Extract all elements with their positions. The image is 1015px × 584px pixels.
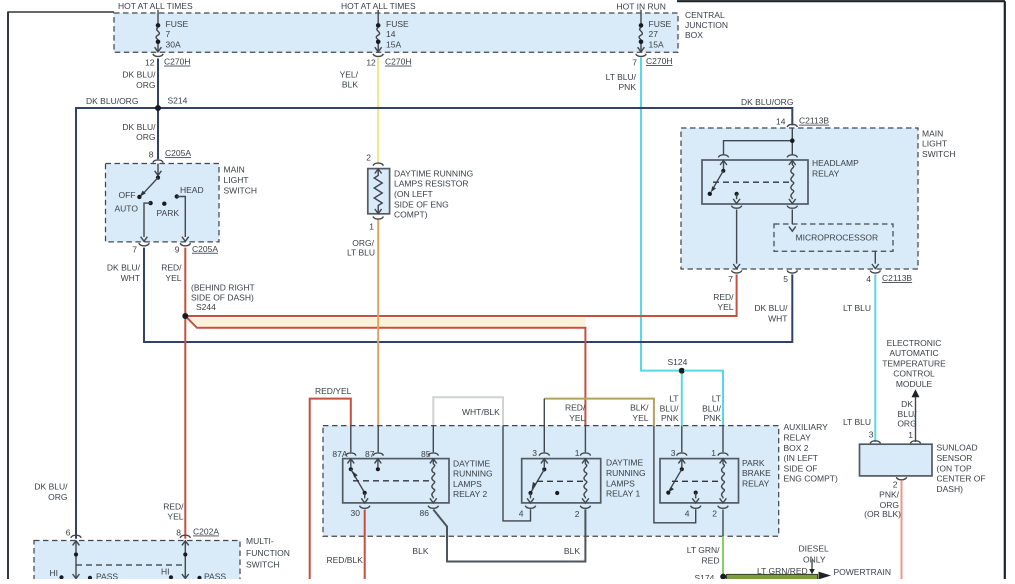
headlamp relay contact to output (733, 192, 740, 204)
svg-text:DK: DK (901, 399, 913, 409)
svg-text:MODULE: MODULE (896, 379, 933, 389)
relay2 mechanical dashed link (353, 480, 431, 482)
wire headlamp relay coil to microprocessor (791, 210, 793, 225)
svg-text:DK BLU/: DK BLU/ (107, 263, 141, 273)
MFS pin6 internals (73, 541, 80, 579)
page border top-left segment (8, 11, 114, 13)
svg-text:14: 14 (776, 117, 786, 127)
svg-text:HEADLAMP: HEADLAMP (812, 158, 859, 168)
svg-text:LAMPS: LAMPS (606, 478, 635, 488)
svg-text:RED: RED (702, 556, 720, 566)
auxiliary relay box 2 (323, 422, 838, 536)
node S244 (182, 313, 188, 319)
label YEL/BLK (340, 69, 359, 89)
connector C270H pin 7 (fuse 27) (632, 54, 672, 68)
svg-text:MULTI-: MULTI- (246, 536, 274, 546)
relay1 pin3 entry arrow and contact (541, 459, 548, 472)
svg-text:2: 2 (712, 509, 717, 519)
svg-text:BLK: BLK (412, 546, 428, 556)
svg-text:TEMPERATURE: TEMPERATURE (882, 358, 946, 368)
contact AUTO to pin 7 (141, 201, 153, 241)
svg-text:RUNNING: RUNNING (606, 468, 646, 478)
svg-text:6: 6 (66, 528, 71, 538)
svg-text:PARK: PARK (742, 458, 765, 468)
svg-text:DAYTIME: DAYTIME (453, 458, 490, 468)
svg-text:8: 8 (149, 150, 154, 160)
svg-text:JUNCTION: JUNCTION (685, 20, 728, 30)
svg-text:PNK: PNK (619, 82, 637, 92)
svg-text:DASH): DASH) (937, 484, 964, 494)
wire RED/YEL from bottom up to relay2 pin 87A (310, 399, 351, 579)
svg-text:AUTO: AUTO (115, 204, 139, 214)
svg-text:LT BLU: LT BLU (347, 247, 375, 257)
svg-text:15A: 15A (649, 39, 664, 49)
connector C202A pins 6 and 8 (66, 527, 220, 538)
svg-text:30A: 30A (166, 39, 181, 49)
label LT BLU/PNK (left drop) (660, 394, 680, 423)
svg-text:S174: S174 (695, 573, 715, 579)
fuse 14 15A (375, 10, 409, 52)
fuse 7 30A (155, 10, 189, 52)
wire relay1 pin1 inside aux box (584, 426, 586, 453)
svg-text:S244: S244 (196, 302, 216, 312)
contact PARK (floating) (162, 202, 166, 206)
wire headlamp relay output to MLS pin 7 (733, 210, 740, 269)
wire relay1 pin4 to WHT/BLK elbow (503, 426, 531, 521)
headlamp relay box (702, 158, 859, 204)
wire LT GRN/RED to S174 (722, 536, 724, 579)
svg-text:LT BLU: LT BLU (843, 303, 871, 313)
label DK BLU/ORG (above S214) (122, 70, 156, 90)
svg-text:PARK: PARK (157, 208, 180, 218)
svg-text:S214: S214 (168, 95, 188, 105)
wire park brake relay pin3 inside aux box (681, 426, 683, 453)
svg-text:AUTOMATIC: AUTOMATIC (889, 348, 938, 358)
switch arm to OFF (137, 178, 158, 199)
svg-text:S124: S124 (668, 357, 688, 367)
svg-text:DK BLU/ORG: DK BLU/ORG (86, 96, 138, 106)
microprocessor box (774, 224, 893, 251)
daytime running lamps resistor box (368, 168, 473, 219)
relay2 connector arcs pins 87A 87 85 (332, 449, 438, 459)
svg-text:BLU/: BLU/ (702, 403, 722, 413)
sunload connector pin 2 (893, 477, 907, 489)
svg-text:MICROPROCESSOR: MICROPROCESSOR (796, 233, 879, 243)
relay1 mechanical dashed link (537, 480, 583, 482)
svg-text:2: 2 (366, 153, 371, 163)
wire LT GRN/RED thick to powertrain (727, 574, 818, 579)
svg-text:RED/YEL: RED/YEL (315, 386, 352, 396)
svg-text:C205A: C205A (165, 148, 191, 158)
wire RED/BLK relay2 pin30 down (364, 510, 366, 580)
connector C2113B pins 7 5 4 (728, 270, 912, 284)
svg-text:CONTROL: CONTROL (893, 369, 935, 379)
relay1 coil (582, 459, 589, 503)
svg-text:SWITCH: SWITCH (246, 560, 280, 570)
svg-text:ORG: ORG (136, 132, 155, 142)
svg-text:C205A: C205A (192, 244, 218, 254)
wire BLK/YEL drop to park brake relay pin4 (654, 426, 696, 523)
svg-text:RED/: RED/ (713, 292, 734, 302)
svg-text:FUSE: FUSE (386, 19, 409, 29)
svg-text:DK BLU/: DK BLU/ (754, 303, 788, 313)
svg-text:1: 1 (575, 448, 580, 458)
svg-text:8: 8 (176, 528, 181, 538)
wire LT BLU/PNK fuse27 down to S124 turn (641, 57, 680, 370)
relay1 connector arcs pins 4 2 (519, 506, 591, 520)
headlamp relay bottom connector arcs (731, 206, 797, 209)
svg-text:SIDE OF DASH): SIDE OF DASH) (191, 293, 254, 303)
svg-text:DK BLU/: DK BLU/ (34, 482, 68, 492)
relay2 connector arcs pins 30 86 (351, 506, 439, 518)
svg-text:LT BLU: LT BLU (843, 417, 871, 427)
MFS HI PASS contacts right (161, 567, 226, 582)
svg-text:HEAD: HEAD (180, 185, 204, 195)
connector C205A pin 8 (149, 148, 192, 162)
svg-text:YEL: YEL (167, 511, 183, 521)
svg-text:WHT: WHT (768, 314, 787, 324)
svg-text:DIESEL: DIESEL (799, 544, 830, 554)
svg-text:SIDE OF: SIDE OF (784, 463, 818, 473)
svg-text:ONLY: ONLY (803, 554, 826, 564)
label DK BLU/ORG (MFS pin6) (34, 482, 68, 502)
svg-text:RED/: RED/ (565, 403, 586, 413)
svg-text:LT GRN/RED: LT GRN/RED (757, 566, 808, 576)
park brake relay pin3 entry arrow and contact (678, 459, 685, 472)
wire ORG/LT BLU resistor to relay2 pin 87 (377, 220, 379, 426)
svg-text:BLK: BLK (564, 546, 580, 556)
wire microprocessor output to MLS pin 4 (872, 251, 879, 268)
svg-text:RELAY 1: RELAY 1 (606, 489, 640, 499)
svg-text:(BEHIND RIGHT: (BEHIND RIGHT (191, 282, 255, 292)
svg-text:OFF: OFF (119, 190, 136, 200)
svg-text:BLK/: BLK/ (630, 403, 649, 413)
MFS mechanical dashed link (76, 564, 185, 566)
pale yellow band between RED/YEL pair (189, 318, 586, 327)
resistor element (374, 169, 382, 214)
svg-text:SENSOR: SENSOR (937, 453, 973, 463)
label CENTRAL JUNCTION BOX (685, 10, 728, 40)
svg-text:(OR BLK): (OR BLK) (864, 509, 901, 519)
relay2 coil (430, 459, 437, 503)
svg-text:27: 27 (649, 29, 659, 39)
svg-text:1: 1 (711, 448, 716, 458)
svg-text:85: 85 (421, 449, 431, 459)
svg-text:RELAY: RELAY (742, 478, 770, 488)
label PNK/ORG (OR BLK) (864, 490, 901, 519)
svg-text:C2113B: C2113B (799, 116, 829, 126)
wire 87 inside aux box (377, 426, 379, 453)
svg-text:DAYTIME RUNNING: DAYTIME RUNNING (394, 168, 473, 178)
headlamp relay switch (708, 160, 727, 196)
fuse 27 15A (638, 10, 672, 52)
contact HEAD to pin 9 (175, 194, 189, 241)
svg-text:12: 12 (366, 58, 376, 68)
wire BLK relay2 pin86 to relay1 pin2 (433, 509, 585, 561)
wire DK BLU/ORG sunload pin1 up to ETC module arrow (912, 389, 920, 442)
svg-text:YEL: YEL (569, 413, 585, 423)
svg-text:ENG COMPT): ENG COMPT) (784, 474, 838, 484)
svg-text:4: 4 (866, 274, 871, 284)
node S174 (695, 573, 727, 583)
label DK BLU/ORG (below S214) (122, 122, 156, 142)
resistor pin 2 connector (366, 153, 383, 166)
svg-text:(ON LEFT: (ON LEFT (394, 189, 433, 199)
svg-text:COMPT): COMPT) (394, 210, 428, 220)
svg-text:ORG: ORG (136, 80, 155, 90)
svg-text:BLK: BLK (342, 79, 358, 89)
svg-text:LT: LT (669, 394, 678, 404)
MFS HI PASS contacts left (50, 568, 119, 582)
central junction box dashed border (114, 13, 678, 52)
svg-text:12: 12 (145, 58, 155, 68)
svg-text:DK BLU/: DK BLU/ (122, 122, 156, 132)
label RED/YEL (below pin 9) (161, 263, 182, 283)
svg-text:LT BLU/: LT BLU/ (606, 72, 637, 82)
svg-text:DK BLU/ORG: DK BLU/ORG (741, 97, 793, 107)
svg-text:87: 87 (365, 449, 375, 459)
wire LT BLU MLS pin4 to sunload sensor (874, 274, 876, 442)
park brake relay connector arcs pins 3 1 (671, 448, 728, 458)
svg-text:4: 4 (685, 509, 690, 519)
connector C2113B pin 14 (776, 116, 829, 127)
wire YEL/BLK fuse14 to resistor (377, 57, 379, 162)
label DK BLU/ORG (sunload pin1) (897, 399, 917, 429)
svg-text:FUNCTION: FUNCTION (246, 548, 290, 558)
svg-text:RELAY: RELAY (784, 433, 812, 443)
svg-text:C2113B: C2113B (882, 273, 912, 283)
park brake relay stationary contact to pin4 (692, 491, 699, 503)
node S124 (668, 357, 688, 374)
svg-text:C270H: C270H (646, 56, 672, 66)
svg-text:BOX: BOX (685, 30, 703, 40)
svg-text:WHT: WHT (121, 273, 140, 283)
svg-text:POWERTRAIN: POWERTRAIN (834, 567, 891, 577)
connector C205A pins 7 and 9 (132, 243, 218, 254)
label (BEHIND RIGHT SIDE OF DASH) S244 (191, 282, 255, 312)
svg-text:SIDE OF ENG: SIDE OF ENG (394, 199, 449, 209)
park brake relay box (660, 458, 771, 503)
svg-text:30: 30 (351, 508, 361, 518)
node S214 (155, 95, 188, 111)
svg-text:YEL: YEL (717, 302, 733, 312)
svg-text:1: 1 (369, 222, 374, 232)
svg-text:WHT/BLK: WHT/BLK (462, 407, 500, 417)
svg-text:PASS: PASS (96, 572, 118, 579)
relay1 switch arm 3 to 4 (527, 469, 544, 503)
svg-text:BLU/: BLU/ (660, 403, 680, 413)
park brake relay coil (720, 459, 727, 503)
svg-text:BLU/: BLU/ (898, 409, 918, 419)
svg-text:SUNLOAD: SUNLOAD (937, 443, 978, 453)
svg-text:LAMPS: LAMPS (453, 479, 482, 489)
svg-text:(IN LEFT: (IN LEFT (784, 453, 818, 463)
svg-text:ORG: ORG (48, 492, 67, 502)
svg-text:4: 4 (519, 509, 524, 519)
svg-text:7: 7 (132, 244, 137, 254)
relay1 floating contact (555, 491, 559, 495)
svg-text:5: 5 (783, 274, 788, 284)
svg-text:2: 2 (575, 509, 580, 519)
svg-text:RED/: RED/ (163, 502, 184, 512)
svg-text:7: 7 (632, 58, 637, 68)
wire park brake relay pin1 inside aux box (722, 426, 724, 453)
label DK BLU/WHT (MLS pin 5) (754, 303, 788, 324)
svg-text:RED/BLK: RED/BLK (327, 555, 364, 565)
svg-text:3: 3 (532, 448, 537, 458)
svg-text:MAIN: MAIN (922, 128, 943, 138)
wire pin14 to junction and branches inside MLS (724, 128, 795, 155)
svg-text:86: 86 (420, 508, 430, 518)
relay2 pin 87 stub contact (375, 459, 382, 472)
page border top-right segment (677, 0, 1005, 2)
svg-text:ORG: ORG (897, 419, 916, 429)
svg-text:1: 1 (908, 430, 913, 440)
svg-text:DK BLU/: DK BLU/ (122, 70, 156, 80)
daytime running lamps relay 2 box (343, 458, 493, 503)
wire DK BLU/ORG main horizontal S214 run with left drop to MFS and right drop to C2113B pin14 (76, 108, 792, 539)
svg-text:HOT AT ALL TIMES: HOT AT ALL TIMES (118, 1, 193, 11)
connector C270H pin 12 (fuse 7) (145, 54, 190, 68)
svg-text:C202A: C202A (193, 527, 219, 537)
svg-text:HOT AT ALL TIMES: HOT AT ALL TIMES (341, 1, 416, 11)
page border left (7, 12, 9, 580)
svg-text:LAMPS RESISTOR: LAMPS RESISTOR (394, 179, 468, 189)
svg-text:2: 2 (893, 479, 898, 489)
svg-text:RUNNING: RUNNING (453, 469, 493, 479)
sunload connector pins 3 and 1 (869, 430, 921, 444)
svg-text:FUSE: FUSE (166, 19, 189, 29)
relay2 pin 87A entry arrow and contact (347, 459, 354, 472)
daytime running lamps relay 1 box (522, 458, 646, 503)
wire LT BLU/PNK S124 drop to park brake relay pin 3 (681, 374, 683, 426)
svg-text:(ON TOP: (ON TOP (937, 463, 972, 473)
svg-text:PASS: PASS (204, 572, 226, 579)
svg-text:3: 3 (671, 448, 676, 458)
central junction box fill (114, 13, 678, 52)
label RED/YEL (MFS pin8) (163, 502, 184, 522)
svg-text:C270H: C270H (385, 57, 411, 67)
svg-text:LIGHT: LIGHT (224, 175, 249, 185)
svg-text:PNK/: PNK/ (879, 490, 899, 500)
MFS pin8 internals (182, 541, 189, 579)
svg-text:FUSE: FUSE (649, 19, 672, 29)
page border right (1004, 1, 1006, 579)
wire park brake relay pin2 down inside box (722, 510, 724, 537)
label LT BLU/PNK (right drop) (702, 394, 722, 423)
park brake relay switch arm to open contact (666, 469, 682, 495)
svg-text:HI: HI (50, 568, 59, 578)
svg-text:BOX 2: BOX 2 (784, 443, 809, 453)
svg-text:15A: 15A (386, 39, 401, 49)
label ELECTRONIC AUTOMATIC TEMPERATURE CONTROL MODULE (882, 338, 946, 389)
svg-text:14: 14 (386, 29, 396, 39)
wire DK BLU/WHT pin7 down, across, up to MLS pin5 (144, 248, 792, 342)
main light switch (right) box (681, 128, 956, 269)
svg-text:RELAY: RELAY (812, 168, 840, 178)
sunload sensor box (860, 443, 986, 494)
wire 85 inside aux box (432, 426, 434, 453)
label LT BLU/PNK (fuse 27) (606, 72, 637, 92)
wire DK BLU/ORG fuse7 to S214 to MLS pin8 (157, 59, 159, 160)
svg-text:AUXILIARY: AUXILIARY (784, 422, 829, 432)
park brake relay connector arcs pins 4 2 (685, 506, 728, 519)
label DIESEL ONLY with arrow (799, 544, 830, 575)
main light switch internals: pin8 entry arrow and pivot (155, 164, 162, 180)
headlamp relay connector arcs on top (718, 155, 797, 158)
wire RED/YEL S244 to MLS right pin7 (185, 274, 736, 316)
svg-text:LT GRN/: LT GRN/ (687, 545, 720, 555)
svg-text:SWITCH: SWITCH (224, 185, 258, 195)
label RED/YEL (relay1 pin1) (565, 403, 586, 423)
svg-text:9: 9 (175, 244, 180, 254)
svg-text:HI: HI (161, 567, 170, 577)
wire relay1 pin3 vertical (543, 399, 545, 453)
svg-text:LIGHT: LIGHT (922, 139, 947, 149)
svg-text:RED/: RED/ (161, 263, 182, 273)
svg-text:SWITCH: SWITCH (922, 149, 956, 159)
svg-text:3: 3 (869, 430, 874, 440)
svg-text:7: 7 (166, 29, 171, 39)
park brake relay mechanical dashed link (672, 480, 721, 482)
svg-text:87A: 87A (332, 449, 347, 459)
svg-text:BRAKE: BRAKE (742, 468, 771, 478)
svg-text:RELAY 2: RELAY 2 (453, 489, 487, 499)
relay2 switch arm 87A to 30 (351, 469, 368, 503)
resistor pin 1 connector (369, 217, 383, 232)
wire 87A inside aux box (350, 426, 352, 453)
wire PNK/ORG sunload pin2 down (901, 481, 903, 579)
headlamp relay coil (789, 160, 796, 203)
svg-text:YEL: YEL (632, 413, 648, 423)
multi-function switch box (34, 536, 290, 584)
headlamp relay mechanical dashed link (713, 181, 790, 183)
svg-text:LT: LT (712, 394, 721, 404)
wire RED/YEL S244 branch to DRL relay1 pin1 (185, 316, 585, 426)
svg-text:PNK: PNK (704, 413, 722, 423)
svg-text:YEL: YEL (165, 273, 181, 283)
wire RED/YEL pin9 down through S244 to MFS pin8 (184, 248, 186, 539)
label RED/YEL (MLS pin 7) (713, 292, 734, 312)
wire BLK/YEL relay1 pin3 horizontal to drop (544, 399, 654, 426)
label DK BLU/WHT (left) (107, 263, 141, 283)
relay1 connector arcs pins 3 1 (532, 448, 590, 458)
svg-text:CENTRAL: CENTRAL (685, 10, 725, 20)
svg-text:DAYTIME: DAYTIME (606, 458, 643, 468)
svg-text:YEL/: YEL/ (340, 69, 359, 79)
svg-text:C270H: C270H (164, 57, 190, 67)
svg-text:MAIN: MAIN (224, 165, 245, 175)
microprocessor input arrow (789, 227, 796, 232)
label ORG/LT BLU (347, 238, 375, 257)
svg-text:PNK: PNK (661, 413, 679, 423)
svg-text:7: 7 (728, 274, 733, 284)
arrow to POWERTRAIN (819, 572, 832, 580)
connector C270H pin 12 (fuse 14) (366, 54, 411, 68)
svg-text:CENTER OF: CENTER OF (937, 474, 986, 484)
label LT GRN/RED (687, 545, 720, 566)
wire LT BLU/PNK S124 to park brake relay pin 1 (684, 371, 723, 426)
label BLK/YEL (630, 403, 649, 423)
wire WHT/BLK relay2 pin85 to relay1 pin4 (433, 397, 503, 425)
svg-text:ELECTRONIC: ELECTRONIC (887, 338, 942, 348)
main light switch (left) box (106, 164, 258, 242)
